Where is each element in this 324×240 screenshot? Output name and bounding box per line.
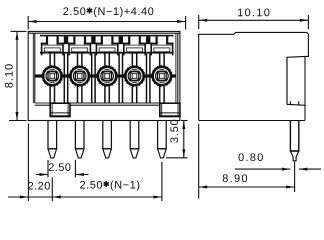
pin visible in opening [289, 101, 291, 105]
front view inner left wall [32, 33, 34, 103]
dimension width 2.50*(N-1)+4.40 [28, 7, 185, 29]
screw guide stems [50, 53, 164, 103]
side view body outline [199, 32, 309, 120]
dimension pitch 2.50 [36, 160, 89, 178]
pin 5 (front view) [158, 121, 167, 158]
screw clamp 1 [42, 66, 62, 86]
front view front-face top edge [28, 32, 180, 34]
pin 3 (front view) [103, 121, 112, 158]
dimension pin width 0.80 [235, 153, 321, 170]
bottom shelf [35, 103, 160, 105]
screw clamp 5 [152, 66, 172, 86]
screw clamp 2 [70, 66, 90, 86]
right mounting foot [160, 103, 180, 116]
front view outer body [28, 31, 180, 120]
cell divider walls [64, 54, 150, 103]
pin (side view) [290, 121, 298, 161]
left mounting foot [50, 103, 70, 116]
screw clamp 4 [124, 66, 144, 86]
clamp strip with wire-entry slots [40, 35, 174, 56]
pin 1 (front view) [48, 121, 57, 158]
dimension 8.90 [199, 124, 295, 199]
clamp bars at screw row [35, 74, 176, 77]
front view inner right wall [175, 33, 177, 103]
dimension height 8.10 [5, 31, 27, 120]
dimension depth 10.10 [199, 9, 309, 29]
dimension pin length 3.50 [166, 120, 188, 158]
screw clamp 3 [97, 66, 117, 86]
pin 2 (front view) [75, 121, 84, 158]
side view plug face [286, 57, 288, 104]
pin 4 (front view) [130, 121, 139, 158]
dimensions 2.20 and 2.50*(N-1) [8, 124, 162, 202]
